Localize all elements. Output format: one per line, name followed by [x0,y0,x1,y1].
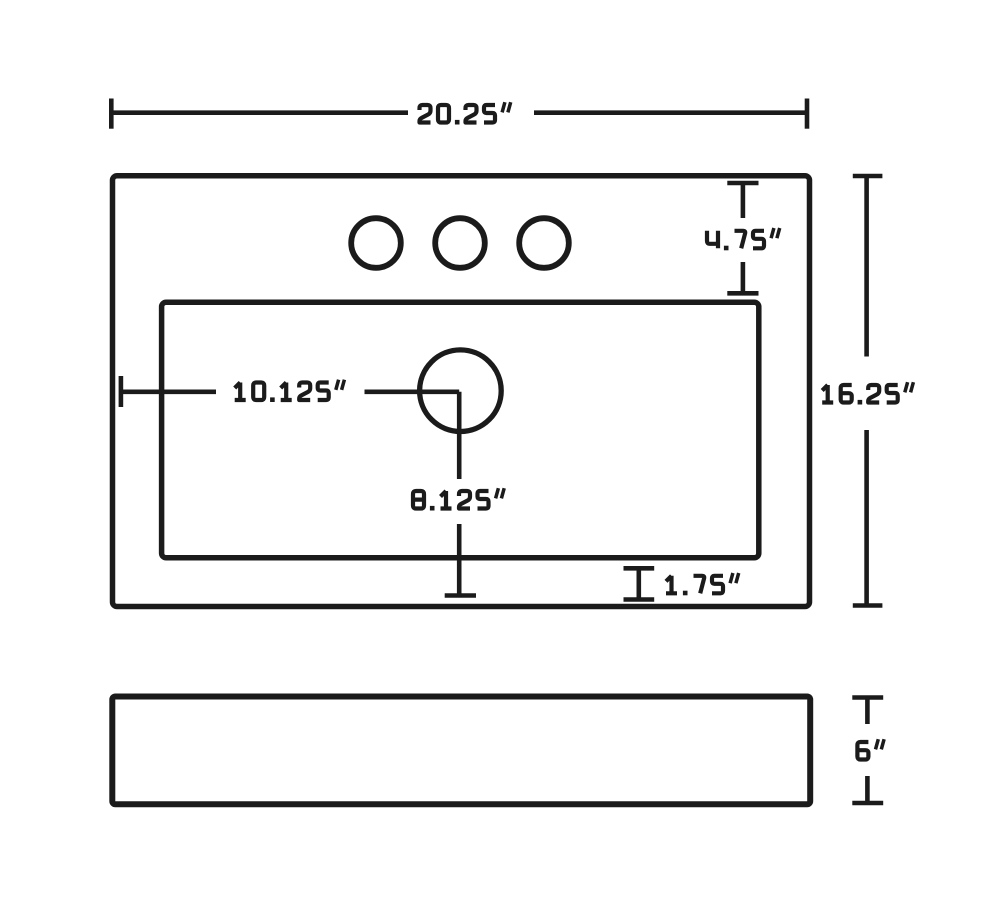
sink top view outer rim [113,176,810,607]
label 4.75 inch [707,231,718,249]
faucet hole right [519,218,569,268]
dimension 6 inch line and ticks [852,698,883,804]
dimension 20.25 inch line and ticks [111,99,807,129]
side view slab [112,697,810,805]
label 10.125 inch [235,383,246,401]
label 16.25 inch [822,385,833,403]
faucet hole center [435,218,485,268]
faucet hole left [351,218,401,268]
label 20.25 inch [420,105,431,123]
label 1.75 inch [666,576,677,594]
dimension 10.125 inch line and tick [121,376,459,407]
dimension 1.75 inch I-beam ticks [624,568,655,599]
dimension 16.25 inch line and ticks [853,176,883,606]
drain circle [420,350,502,432]
label 6 inch [857,742,868,760]
label 8.125 inch [413,491,424,509]
basin inner rim [162,302,759,558]
dimension 8.125 inch line and tick [445,392,476,596]
dimension 4.75 inch line and ticks [727,183,758,293]
